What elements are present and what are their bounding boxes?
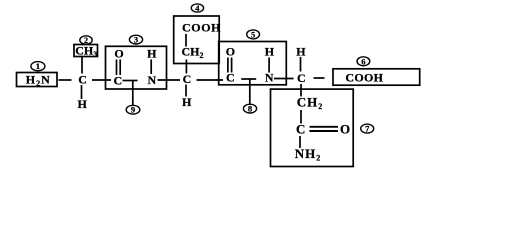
label 6 bbox=[357, 56, 370, 66]
svg-text:N: N bbox=[148, 73, 157, 87]
svg-text:C: C bbox=[183, 72, 192, 86]
svg-text:COOH: COOH bbox=[345, 71, 383, 85]
bond COOH-CH2 (box 4) bbox=[185, 34, 187, 47]
svg-text:4: 4 bbox=[195, 3, 200, 13]
svg-text:5: 5 bbox=[251, 29, 255, 39]
svg-text:8: 8 bbox=[248, 104, 252, 114]
bond C1 to H bbox=[81, 85, 83, 99]
peptide bond box 5 bbox=[219, 42, 287, 85]
wire C1 to peptide C bbox=[92, 79, 111, 81]
svg-text:H: H bbox=[265, 45, 275, 59]
svg-text:H: H bbox=[296, 45, 306, 59]
svg-text:H: H bbox=[147, 47, 157, 61]
methyl box (CH3) bbox=[74, 44, 98, 60]
svg-text:9: 9 bbox=[131, 105, 135, 115]
carboxyl box 6 (COOH) bbox=[333, 69, 420, 85]
bond C1 to CH3 bbox=[81, 57, 83, 74]
svg-text:N: N bbox=[265, 71, 274, 85]
bond N-H (box 3) bbox=[150, 60, 152, 75]
bond H to C3 bbox=[300, 57, 302, 72]
side chain box 7 (CH2-CO-NH2) bbox=[271, 89, 354, 166]
label 9 bbox=[126, 105, 140, 115]
bond C to NH2 (box 7) bbox=[299, 136, 301, 148]
svg-text:H: H bbox=[78, 97, 88, 111]
svg-text:C: C bbox=[226, 71, 235, 85]
svg-text:O: O bbox=[114, 47, 123, 61]
label 5 bbox=[247, 29, 260, 39]
wire C3 to COOH box bbox=[314, 77, 325, 79]
double bond C=O (box 7) bbox=[310, 126, 339, 128]
bond CH2 to C (box 7) bbox=[300, 110, 302, 124]
svg-text:COOH: COOH bbox=[182, 21, 221, 35]
label 8 bbox=[243, 104, 256, 114]
peptide bond box 3 bbox=[106, 46, 167, 89]
bond N-H (box 5) bbox=[268, 58, 270, 73]
wire H2N to C1 bbox=[59, 79, 72, 81]
tick wire to label 9 bbox=[132, 81, 134, 106]
wire C2 to peptide C (box 5) bbox=[197, 79, 224, 81]
svg-text:3: 3 bbox=[134, 35, 138, 45]
svg-text:C: C bbox=[296, 122, 305, 137]
label 4 bbox=[191, 3, 203, 13]
tick wire to label 8 bbox=[249, 79, 251, 105]
svg-text:1: 1 bbox=[36, 61, 40, 71]
double bond C=O (box 5) bbox=[227, 58, 229, 73]
peptide C-N bond (box 5) bbox=[241, 78, 256, 80]
label 1 bbox=[31, 61, 45, 71]
side chain box 4 (CH2-COOH) bbox=[174, 16, 220, 64]
svg-text:H: H bbox=[182, 95, 192, 109]
svg-text:6: 6 bbox=[361, 56, 365, 66]
bond CH2 to C2 bbox=[185, 60, 187, 74]
svg-text:C: C bbox=[297, 71, 306, 85]
bond C2 to H bbox=[185, 85, 187, 97]
svg-text:7: 7 bbox=[365, 124, 370, 134]
label 2 bbox=[80, 36, 92, 45]
svg-text:2: 2 bbox=[84, 36, 88, 45]
svg-text:O: O bbox=[340, 122, 350, 137]
wire N to C3 bbox=[274, 78, 294, 80]
svg-text:C: C bbox=[114, 74, 123, 88]
double bond C=O (box 3) bbox=[116, 60, 118, 76]
svg-text:C: C bbox=[78, 73, 87, 87]
wire N to C2 bbox=[158, 79, 181, 81]
label 3 bbox=[129, 35, 142, 45]
bond C3 down to CH2 bbox=[300, 84, 302, 97]
peptide C-N bond (box 3) bbox=[123, 80, 138, 82]
svg-text:O: O bbox=[226, 45, 235, 59]
amino group box (H2N) bbox=[17, 73, 58, 89]
label 7 bbox=[361, 124, 374, 134]
